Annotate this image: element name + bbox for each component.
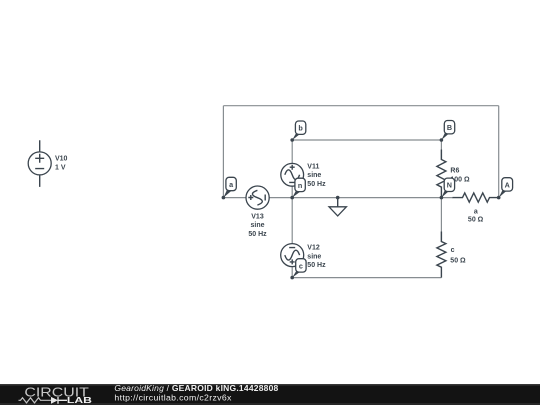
node tag N xyxy=(441,178,454,198)
wire V11 branch vertical xyxy=(291,140,293,198)
svg-text:b: b xyxy=(298,124,303,133)
wire bottom horizontal xyxy=(292,277,441,279)
svg-text:50 Hz: 50 Hz xyxy=(307,181,326,188)
logo diode xyxy=(51,397,58,404)
node tag A xyxy=(499,178,513,198)
svg-text:50 Ω: 50 Ω xyxy=(450,258,466,265)
junction node N xyxy=(440,196,444,200)
logo resistor zigzag xyxy=(19,398,52,403)
resistor c xyxy=(437,232,446,278)
wire V12 branch vertical xyxy=(291,198,293,278)
svg-text:V10: V10 xyxy=(55,156,68,163)
svg-text:1 V: 1 V xyxy=(55,165,66,172)
svg-text:50 Hz: 50 Hz xyxy=(248,231,267,238)
svg-text:A: A xyxy=(505,180,510,189)
wire b to B horizontal xyxy=(292,139,441,141)
footer bar xyxy=(0,384,540,405)
svg-text:V13: V13 xyxy=(251,214,264,221)
svg-text:R6: R6 xyxy=(450,168,459,175)
svg-text:c: c xyxy=(451,247,455,254)
node tag c xyxy=(292,259,306,278)
svg-text:GearoidKing / GEAROID kING.144: GearoidKing / GEAROID kING.14428808 xyxy=(114,383,278,393)
voltage source V12 xyxy=(281,244,304,267)
voltage source V13 xyxy=(246,186,269,209)
resistor R6 xyxy=(437,150,446,198)
svg-text:N: N xyxy=(447,181,452,190)
svg-text:LAB: LAB xyxy=(67,395,92,405)
svg-text:sine: sine xyxy=(307,172,321,179)
node tag a xyxy=(223,177,236,197)
ground xyxy=(329,198,346,216)
svg-text:50 Hz: 50 Hz xyxy=(307,262,326,269)
junction node a xyxy=(222,196,226,200)
svg-text:sine: sine xyxy=(307,253,321,260)
wire main horizontal a-V13-n-gnd-N xyxy=(223,197,453,199)
svg-text:a: a xyxy=(474,208,478,215)
svg-text:http://circuitlab.com/c2rzv6x: http://circuitlab.com/c2rzv6x xyxy=(114,393,232,403)
wire left vertical xyxy=(222,106,224,198)
junction node A xyxy=(497,196,501,200)
wire c branch vertical xyxy=(440,198,442,242)
svg-text:B: B xyxy=(447,123,452,132)
junction node c xyxy=(290,276,294,280)
wire right vertical xyxy=(498,106,500,198)
svg-text:V12: V12 xyxy=(307,245,320,252)
wire top horizontal xyxy=(223,105,498,107)
svg-text:sine: sine xyxy=(250,222,264,229)
svg-text:n: n xyxy=(298,181,302,190)
svg-text:50 Ω: 50 Ω xyxy=(468,217,484,224)
voltage source V10 xyxy=(28,140,51,187)
node tag b xyxy=(292,121,306,140)
node tag n xyxy=(292,178,305,197)
svg-text:V11: V11 xyxy=(307,163,319,170)
voltage source V11 xyxy=(281,163,304,186)
node tag B xyxy=(441,121,454,141)
junction node b xyxy=(290,138,294,142)
junction node B xyxy=(440,138,444,142)
junction node n xyxy=(290,196,294,200)
resistor a xyxy=(453,193,499,202)
junction ground node xyxy=(336,196,340,200)
svg-text:c: c xyxy=(299,261,303,270)
wire R6 branch vertical xyxy=(440,140,442,160)
